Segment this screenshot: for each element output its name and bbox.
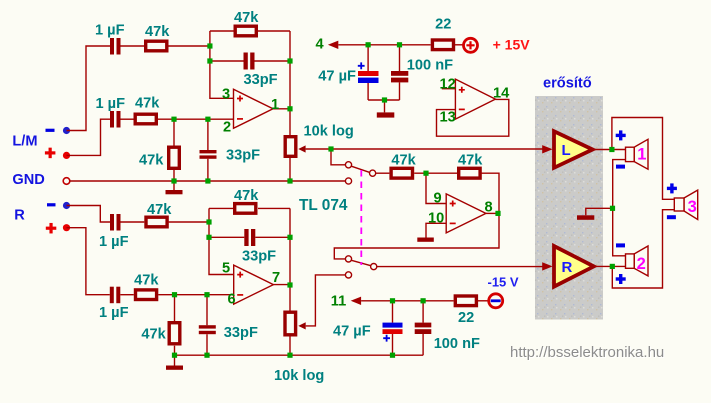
node V- terminal -15V	[489, 294, 503, 308]
resistor R6 47k mixer feedback	[459, 168, 480, 178]
speaker 2	[626, 246, 649, 276]
speaker1 plus mark	[616, 130, 626, 140]
svg-text:4: 4	[316, 37, 325, 53]
svg-text:-15 V: -15 V	[488, 275, 519, 290]
U1D minus mark	[459, 108, 465, 110]
svg-text:3: 3	[222, 87, 230, 103]
resistor R1 47k	[146, 41, 167, 51]
svg-text:22: 22	[435, 17, 451, 33]
wire L/M minus to C1	[67, 46, 111, 131]
svg-text:47 µF: 47 µF	[333, 324, 371, 340]
wire amp R output to speaker 2	[594, 265, 626, 267]
svg-text:+ 15V: + 15V	[493, 37, 531, 53]
svg-text:3: 3	[688, 198, 697, 216]
switch SWa throw bottom contact (GND)	[345, 178, 351, 184]
switch SWb pole contact	[371, 264, 377, 270]
svg-text:13: 13	[440, 110, 456, 126]
svg-text:47k: 47k	[234, 10, 259, 26]
capacitor C7 1µF	[110, 287, 121, 304]
speaker 1	[626, 139, 649, 169]
ground symbol speaker return	[577, 215, 594, 220]
pin11 supply arrow	[351, 297, 361, 305]
svg-text:10k log: 10k log	[274, 368, 324, 384]
wire bottom rail to speaker 3 minus	[612, 210, 674, 288]
wire U1B output	[273, 284, 290, 286]
svg-text:22: 22	[458, 310, 474, 326]
resistor R11 22	[432, 40, 453, 50]
wire 100nF bottom column	[422, 301, 424, 355]
wire ground bus bottom	[175, 354, 424, 356]
L/M plus mark	[45, 148, 56, 159]
svg-text:erősítő: erősítő	[543, 76, 592, 92]
wire mix node to pin9	[426, 173, 446, 203]
svg-text:10k log: 10k log	[304, 124, 354, 140]
node GND terminal	[63, 178, 70, 185]
U1B plus mark	[237, 272, 243, 278]
svg-text:5: 5	[222, 261, 230, 277]
capacitor C5 1µF	[110, 214, 121, 231]
wire 100nF top column	[399, 45, 401, 100]
svg-text:47k: 47k	[458, 153, 483, 169]
wire R1 to node A	[169, 45, 210, 47]
svg-text:33pF: 33pF	[226, 147, 260, 163]
switch SWa pole contact	[370, 170, 376, 176]
svg-text:47 µF: 47 µF	[318, 69, 356, 85]
amplifier block (erősítő)	[535, 96, 603, 320]
svg-text:R: R	[562, 259, 573, 276]
svg-text:1: 1	[271, 97, 279, 113]
speaker2 plus mark	[616, 274, 626, 284]
wire feedback cap row L	[210, 60, 290, 62]
svg-text:2: 2	[637, 255, 646, 273]
resistor R10 47k to ground	[169, 323, 180, 344]
U1D plus mark	[459, 87, 465, 93]
svg-text:10: 10	[428, 211, 444, 227]
capacitor C1 1µF	[110, 38, 121, 55]
wire U1A output	[273, 108, 290, 110]
svg-text:33pF: 33pF	[224, 325, 258, 341]
wire R5 to R6	[414, 172, 457, 174]
svg-text:11: 11	[331, 294, 346, 310]
wire SWb pole to amp R	[377, 266, 544, 268]
resistor R5 47k mixer	[391, 168, 412, 178]
capacitor C11 47µF electrolytic	[383, 323, 403, 342]
wire L/M plus to C3	[67, 119, 111, 155]
svg-text:6: 6	[228, 292, 236, 308]
U1A minus mark	[237, 118, 243, 120]
svg-text:9: 9	[434, 191, 442, 207]
wire node B column to pin5	[209, 208, 234, 274]
wire C3 to R3	[121, 118, 134, 120]
wire wiper drop to switch SWa	[331, 149, 345, 165]
op-amp U1D	[455, 79, 495, 119]
svg-text:14: 14	[493, 86, 510, 102]
op-amp U1B	[234, 265, 274, 304]
wire R6 to U1C output column	[334, 173, 499, 259]
svg-text:33pF: 33pF	[244, 72, 278, 88]
switch SWb throw bottom contact	[345, 272, 351, 278]
resistor R2 47k feedback	[235, 26, 256, 36]
capacitor C2 33pF feedback	[244, 53, 255, 70]
speaker3 plus mark	[667, 183, 677, 193]
wire join caps to ground top	[368, 100, 399, 112]
capacitor C3 1µF	[110, 111, 121, 128]
capacitor C12 100nF	[415, 323, 432, 334]
node R plus terminal	[63, 224, 70, 231]
resistor R9 47k	[136, 290, 157, 300]
wire node A column to pin3	[210, 31, 234, 98]
svg-text:47k: 47k	[391, 153, 416, 169]
U1C minus mark	[450, 222, 456, 224]
svg-text:1 µF: 1 µF	[95, 23, 125, 39]
power amp R triangle	[554, 246, 594, 287]
potentiometer P2 10k log	[285, 312, 306, 355]
op-amp U1A	[234, 89, 274, 128]
svg-text:L: L	[562, 142, 571, 159]
wire feedback top L	[210, 30, 290, 32]
svg-text:8: 8	[485, 200, 493, 216]
wire SWb bottom throw to P2 wiper	[306, 275, 346, 326]
wire output column R	[289, 208, 291, 312]
svg-text:2: 2	[223, 120, 231, 136]
svg-text:L/M: L/M	[12, 134, 37, 150]
wire R9 to pin6	[158, 294, 234, 296]
ground symbol supply top	[377, 112, 395, 117]
svg-text:47k: 47k	[147, 202, 172, 218]
resistor R4 47k to ground	[169, 147, 180, 168]
wire 47uF top column	[367, 45, 369, 100]
node L/M minus terminal	[63, 127, 70, 134]
svg-text:47k: 47k	[134, 273, 159, 289]
capacitor C4 33pF to ground	[200, 150, 217, 159]
speaker1 minus mark	[616, 165, 625, 169]
svg-text:47k: 47k	[139, 153, 164, 169]
capacitor C10 100nF	[391, 71, 408, 82]
svg-text:GND: GND	[12, 172, 44, 188]
wire U1C output pin8	[486, 212, 499, 214]
wire C5 to R7	[121, 221, 145, 223]
wire U1D pin13 feedback loop	[437, 99, 509, 136]
U1B minus mark	[237, 294, 243, 296]
wire R3 to pin2	[158, 118, 234, 120]
wire P1 wiper to amp L	[306, 148, 544, 150]
resistor R3 47k	[135, 114, 156, 124]
wire -15V rail	[361, 300, 454, 302]
wire C1 to R1	[121, 45, 145, 47]
resistor R12 22	[455, 296, 476, 306]
svg-text:R: R	[14, 208, 25, 224]
wire 47uF bottom column	[392, 301, 394, 355]
L/M minus mark	[46, 129, 55, 132]
node R minus terminal	[63, 202, 70, 209]
wire shunt column C8	[206, 295, 208, 356]
wire R11 to V+ terminal	[455, 44, 464, 46]
arrow into amp L	[542, 145, 552, 153]
ground symbol below R10	[166, 355, 183, 370]
wire C7 to R9	[120, 294, 134, 296]
wire shunt column R10	[174, 295, 176, 356]
svg-text:http://bsselektronika.hu: http://bsselektronika.hu	[510, 344, 664, 361]
power amp L triangle	[554, 131, 593, 168]
svg-text:47k: 47k	[145, 24, 170, 40]
gang dashed link SWa-SWb	[360, 170, 362, 265]
svg-text:100 nF: 100 nF	[407, 58, 453, 74]
wire +15V rail	[338, 44, 430, 46]
svg-text:100 nF: 100 nF	[434, 336, 480, 352]
wire shunt column R4	[173, 119, 175, 181]
svg-text:7: 7	[272, 270, 280, 286]
wire speaker1 minus to speaker2 minus	[613, 160, 626, 256]
wire amp L output to speaker 1	[593, 149, 626, 151]
watermark	[510, 344, 665, 362]
U1A plus mark	[237, 96, 243, 102]
R minus mark	[47, 203, 56, 206]
wire U1C pin10 to ground	[426, 223, 446, 237]
resistor R8 47k feedback	[235, 204, 256, 214]
svg-text:47k: 47k	[135, 96, 160, 112]
R plus mark	[46, 223, 57, 234]
U1C plus mark	[450, 201, 456, 207]
arrow into amp R	[542, 262, 552, 270]
capacitor C6 33pF feedback	[244, 229, 255, 246]
wire U1D pin12 stub	[442, 88, 456, 90]
wire speaker return to ground	[586, 208, 613, 215]
ground symbol below R4	[166, 181, 183, 194]
switch SWb throw top contact	[345, 256, 351, 262]
svg-text:TL 074: TL 074	[299, 197, 348, 214]
wire SWa pole to R5	[376, 172, 390, 174]
resistor R7 47k	[146, 217, 167, 227]
capacitor C9 47µF electrolytic	[358, 62, 379, 83]
capacitor C8 33pF to ground	[199, 325, 216, 334]
svg-text:1 µF: 1 µF	[96, 96, 126, 112]
ground symbol pin10	[417, 238, 434, 242]
svg-text:1 µF: 1 µF	[99, 234, 129, 250]
svg-text:47k: 47k	[141, 327, 166, 343]
svg-text:33pF: 33pF	[242, 249, 276, 265]
wire GND bus	[70, 180, 346, 182]
op-amp U1C	[446, 194, 486, 233]
switch SWa throw top contact	[345, 162, 351, 168]
wire shunt column C4	[207, 119, 209, 181]
wire R minus to C5	[67, 206, 111, 223]
wire feedback cap row R	[209, 236, 290, 238]
svg-text:1 µF: 1 µF	[99, 305, 129, 321]
speaker2 minus mark	[616, 243, 625, 247]
wire feedback top R	[209, 207, 290, 209]
switch SWa lever	[351, 166, 369, 172]
switch SWb lever	[351, 260, 370, 265]
wire top rail to speaker 3 plus	[612, 118, 674, 200]
svg-text:1: 1	[637, 146, 646, 164]
svg-text:47k: 47k	[234, 188, 259, 204]
wire R plus to C7	[67, 228, 110, 295]
pin4 supply arrow	[328, 41, 338, 49]
wire R12 to V- terminal	[478, 300, 489, 302]
svg-text:12: 12	[440, 77, 456, 93]
wire R7 to node B	[169, 221, 209, 223]
node V+ terminal +15V	[464, 38, 478, 52]
node L/M plus terminal	[63, 152, 70, 159]
speaker3 minus mark	[667, 215, 676, 219]
speaker 3	[674, 190, 697, 219]
wire output column L	[289, 31, 291, 135]
potentiometer P1 10k log	[285, 137, 305, 181]
